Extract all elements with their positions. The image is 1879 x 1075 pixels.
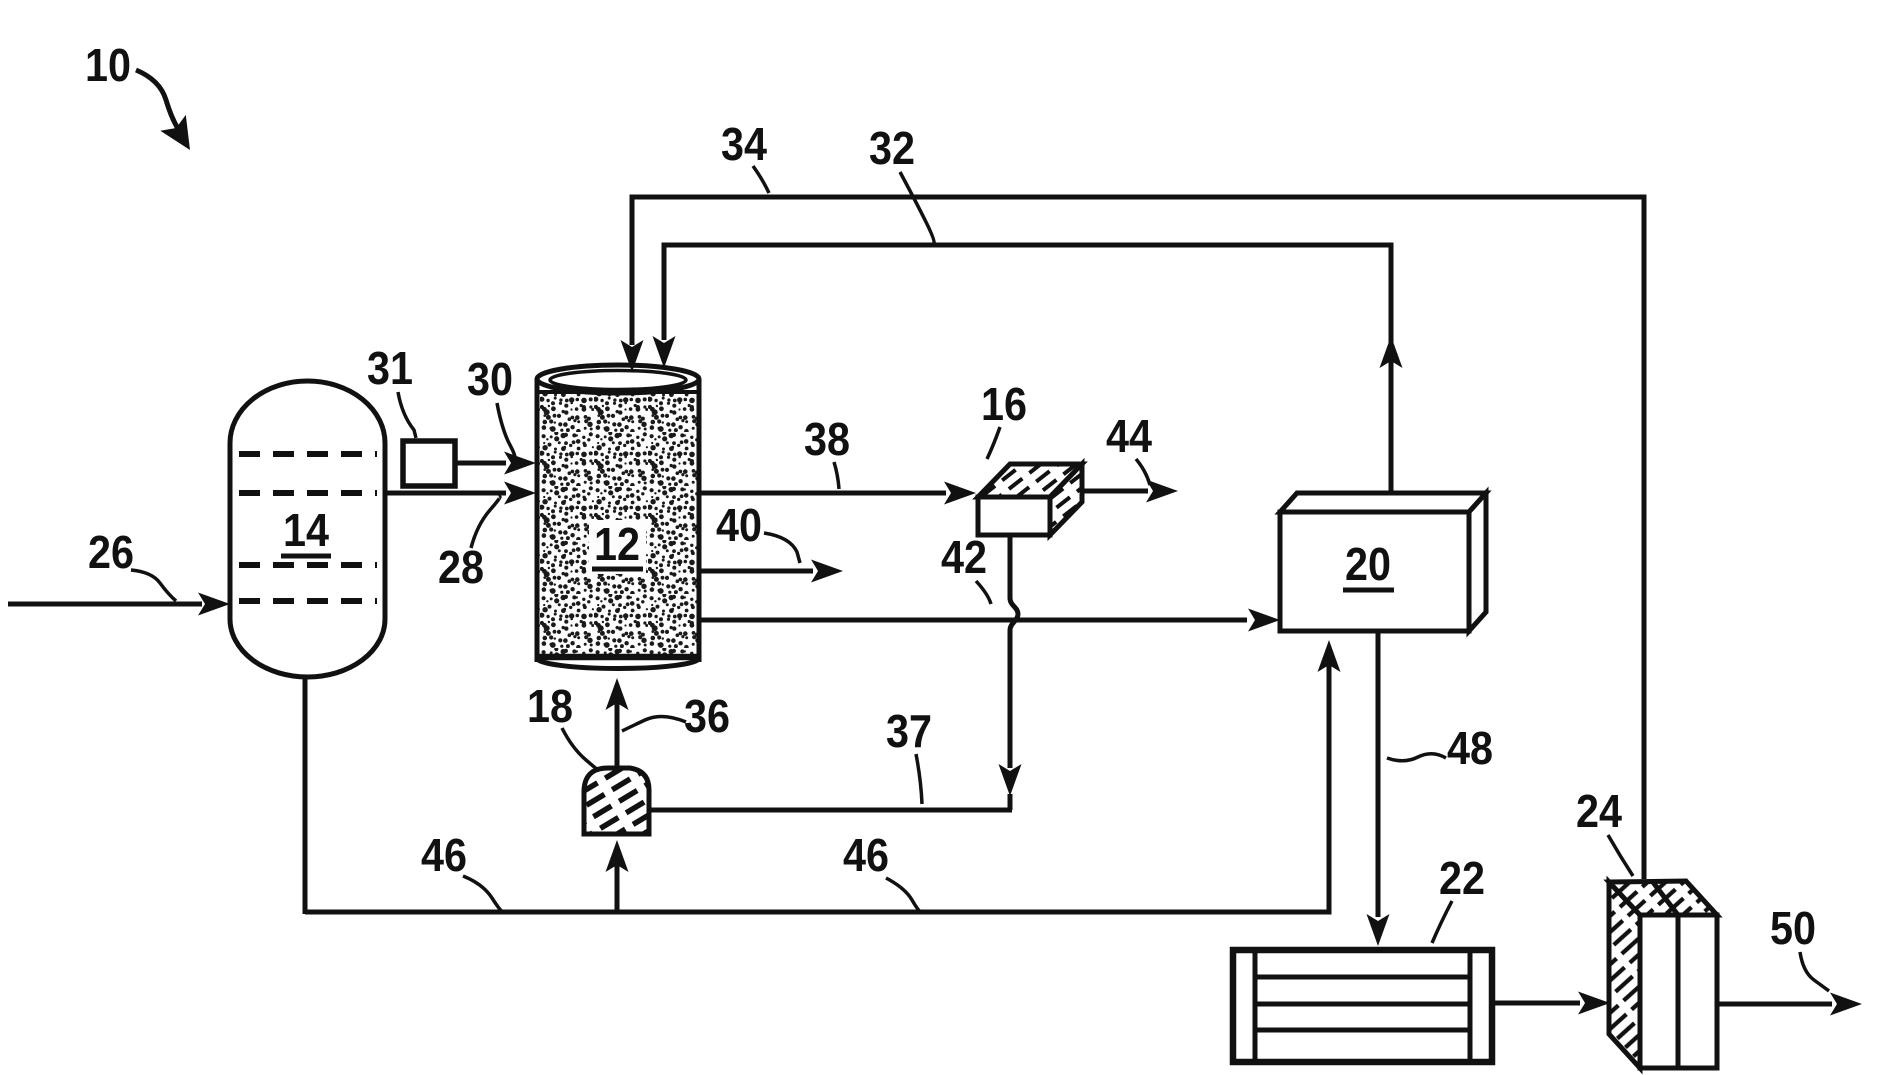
leader 28 bbox=[471, 497, 500, 548]
svg-text:36: 36 bbox=[684, 690, 730, 742]
separator 20 bbox=[1280, 493, 1486, 631]
feed stream arrow 26 bbox=[8, 593, 230, 616]
label 42 bbox=[941, 531, 987, 583]
label 36 bbox=[684, 690, 730, 742]
wire 38 reactor to filter 16 bbox=[699, 482, 976, 505]
wire 44 filter outlet bbox=[1082, 480, 1178, 503]
leader 26 bbox=[131, 570, 176, 601]
svg-text:26: 26 bbox=[88, 526, 134, 578]
label 16 bbox=[981, 378, 1027, 430]
label 28 bbox=[438, 541, 484, 593]
wire 34 top recycle loop bbox=[621, 197, 1645, 879]
wire 32 recycle from separator 20 bbox=[653, 245, 1403, 491]
label 44 bbox=[1106, 410, 1152, 462]
leader arrow 10 bbox=[136, 70, 190, 150]
wire 40 reactor side draw bbox=[699, 560, 843, 583]
label 34 bbox=[721, 118, 767, 170]
wire filter 16 down to line 37 bbox=[999, 535, 1022, 810]
svg-text:44: 44 bbox=[1106, 410, 1152, 462]
svg-text:30: 30 bbox=[467, 353, 513, 405]
leader 30 bbox=[497, 403, 515, 459]
filter 16 bbox=[978, 464, 1082, 535]
label 12 bbox=[589, 518, 646, 574]
wire reactor to separator 20 bbox=[699, 609, 1280, 632]
leader 31 bbox=[398, 392, 416, 438]
label 46 right bbox=[843, 829, 889, 881]
label 20 bbox=[1343, 538, 1394, 590]
leader 37 bbox=[916, 754, 922, 804]
vessel 14 tray dashed lines bbox=[239, 454, 377, 601]
vessel 14 bottoms pipe bbox=[303, 675, 308, 914]
leader 44 bbox=[1136, 459, 1150, 485]
label 22 bbox=[1439, 852, 1485, 904]
leader 38 bbox=[834, 462, 839, 489]
svg-text:42: 42 bbox=[941, 531, 987, 583]
wire 37 to pump 18 bbox=[649, 808, 1012, 813]
sensor box 31 bbox=[403, 441, 455, 486]
wire 48 separator to exchanger 22 bbox=[1367, 631, 1390, 946]
svg-text:46: 46 bbox=[421, 829, 467, 881]
leader 36 bbox=[622, 716, 686, 731]
label 48 bbox=[1447, 722, 1493, 774]
svg-text:32: 32 bbox=[869, 122, 915, 174]
leader 46 right bbox=[886, 878, 922, 913]
svg-text:28: 28 bbox=[438, 541, 484, 593]
leader 42 bbox=[976, 581, 991, 604]
label 24 bbox=[1576, 785, 1622, 837]
svg-text:22: 22 bbox=[1439, 852, 1485, 904]
svg-text:20: 20 bbox=[1345, 538, 1391, 590]
reactor 12 body bbox=[537, 365, 699, 669]
label 32 bbox=[869, 122, 915, 174]
label 38 bbox=[804, 413, 850, 465]
leader 50 bbox=[1800, 952, 1829, 991]
svg-text:50: 50 bbox=[1770, 902, 1816, 954]
svg-text:16: 16 bbox=[981, 378, 1027, 430]
svg-text:12: 12 bbox=[594, 518, 640, 570]
leader 40 bbox=[764, 533, 800, 563]
label 30 bbox=[467, 353, 513, 405]
heat exchanger 22 bbox=[1233, 950, 1492, 1062]
label 40 bbox=[716, 499, 762, 551]
svg-text:46: 46 bbox=[843, 829, 889, 881]
vessel 14 bbox=[230, 381, 385, 677]
svg-text:34: 34 bbox=[721, 118, 767, 170]
svg-text:10: 10 bbox=[85, 39, 131, 91]
leader 24 bbox=[1608, 835, 1633, 876]
leader 18 bbox=[562, 728, 598, 770]
label 50 bbox=[1770, 902, 1816, 954]
label 10 bbox=[85, 39, 131, 91]
svg-text:31: 31 bbox=[367, 342, 413, 394]
pump 18 bbox=[584, 768, 649, 834]
wire branch 46 to pump 18 bbox=[606, 840, 629, 912]
svg-text:37: 37 bbox=[886, 705, 932, 757]
svg-text:38: 38 bbox=[804, 413, 850, 465]
wire 30 sensor to reactor bbox=[455, 452, 536, 475]
label 18 bbox=[527, 680, 573, 732]
label 14 bbox=[281, 504, 331, 556]
svg-text:18: 18 bbox=[527, 680, 573, 732]
label 37 bbox=[886, 705, 932, 757]
wire 46 bottom recycle line bbox=[305, 640, 1341, 912]
label 31 bbox=[367, 342, 413, 394]
leader 16 bbox=[987, 427, 1000, 459]
svg-text:24: 24 bbox=[1576, 785, 1622, 837]
product arrow 50 bbox=[1717, 993, 1862, 1016]
wire 28 vessel to reactor bbox=[385, 482, 536, 505]
leader 32 bbox=[900, 172, 934, 243]
leader 46 left bbox=[463, 876, 504, 913]
svg-text:48: 48 bbox=[1447, 722, 1493, 774]
wire exchanger to filter 24 bbox=[1492, 992, 1610, 1015]
svg-text:14: 14 bbox=[283, 504, 329, 556]
svg-text:40: 40 bbox=[716, 499, 762, 551]
label 46 left bbox=[421, 829, 467, 881]
filter 24 bbox=[1609, 881, 1717, 1068]
wire 36 pump to reactor bbox=[606, 678, 629, 768]
leader 34 bbox=[753, 166, 769, 193]
label 26 bbox=[88, 526, 134, 578]
leader 22 bbox=[1432, 901, 1452, 943]
leader 48 bbox=[1387, 754, 1446, 761]
